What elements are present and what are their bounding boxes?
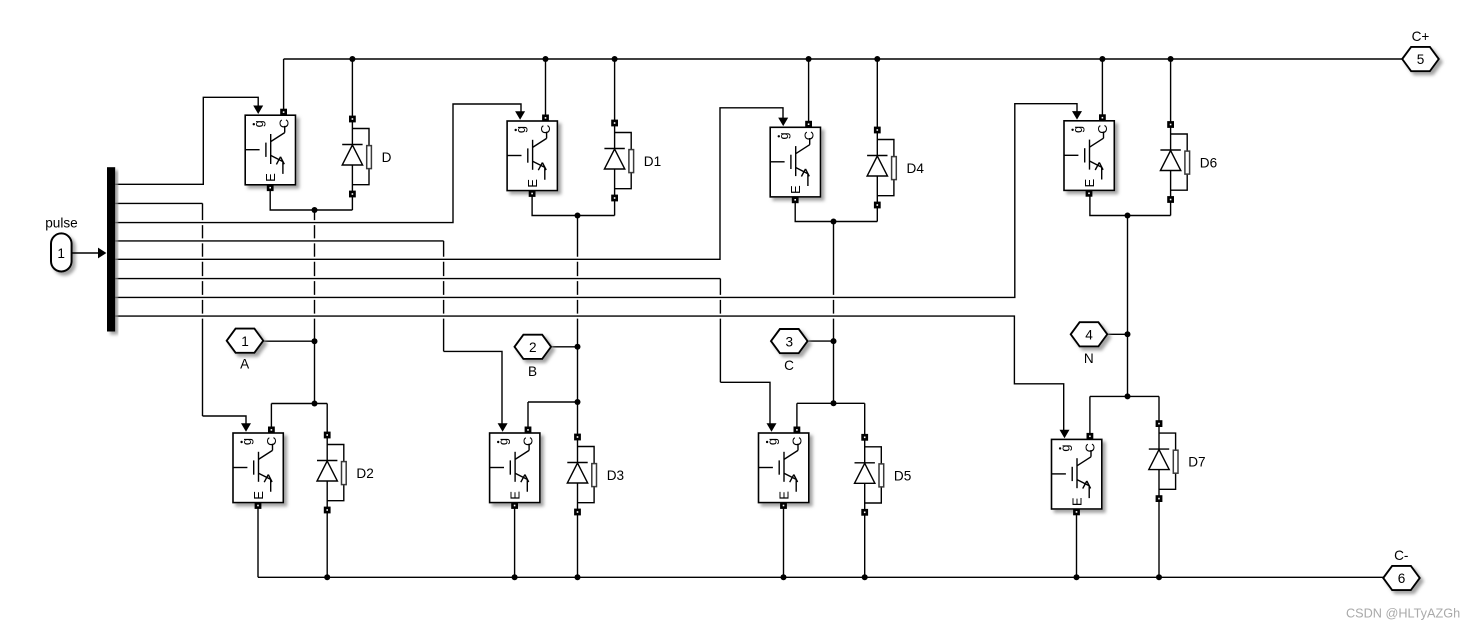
diode D7 [1149,422,1206,501]
wire leg C lower header [797,402,865,404]
diode D6 [1160,122,1217,201]
diode D [342,117,391,196]
wire D cathode to node A [351,195,353,210]
transistor Q2 (IGBT block) [507,111,557,195]
wire bus to Q3 C [808,59,810,125]
node B riser [577,216,579,348]
junction node N upper [1125,213,1131,219]
junction node A upper [312,207,318,213]
wire bus to Q1 C [283,59,285,112]
node C riser [833,222,835,342]
svg-text:D4: D4 [907,161,925,176]
wire gate 1 to Q1 [115,97,259,184]
port B (2) [515,335,552,379]
wire D5 cathode to bus [864,512,866,577]
wire pulse to demux [72,248,107,259]
wire header to D2 anode [326,404,328,437]
diode D4 [867,128,924,207]
diode D3 [567,435,624,514]
node N riser lower [1127,334,1129,396]
junction node N port [1125,331,1131,337]
svg-text:3: 3 [786,334,794,349]
wire leg N lower header [1090,395,1159,397]
wire header to Q6 C [527,402,529,430]
wire gate 4 to Q6 [115,241,503,425]
node A riser [314,210,316,342]
wire Q1 E to node A [270,188,352,210]
wire header to Q7 C [796,403,798,430]
wire Q7 E to bus [783,506,785,578]
wire Q5 E to bus [257,506,259,578]
wire D4 cathode to node C [876,206,878,222]
junction node B port [575,344,581,350]
junction busN-D7 [1156,574,1162,580]
svg-text:5: 5 [1417,52,1425,67]
svg-text:CSDN @HLTyAZGh: CSDN @HLTyAZGh [1346,607,1460,621]
junction node B upper [575,213,581,219]
junction bus-Q2 [543,56,549,62]
junction bus-D1 [612,56,618,62]
junction bus-D4 [874,56,880,62]
svg-text:D7: D7 [1188,455,1205,470]
wire Q6 E to bus [514,506,516,578]
svg-text:1: 1 [57,246,65,261]
wire header to D5 anode [864,403,866,438]
junction busN-Q6 [512,574,518,580]
wire gate 5 to Q3 [115,108,784,259]
svg-text:2: 2 [529,340,537,355]
transistor Q7 (IGBT block) [759,423,809,507]
wire bottom bus C- [258,576,1384,578]
svg-text:C: C [784,358,794,373]
port C+ (5) [1402,29,1439,71]
junction busN-Q7 [781,574,787,580]
watermark [1346,607,1460,621]
junction busN-D2 [324,574,330,580]
wire Q3 E to node C [795,200,877,222]
inport pulse (1) [45,216,78,272]
svg-text:C-: C- [1394,548,1408,563]
transistor Q5 (IGBT block) [233,423,283,507]
port C (3) [771,329,808,373]
wire bus to D6 anode [1170,59,1172,126]
svg-text:C+: C+ [1412,29,1430,44]
diode D1 [604,121,661,200]
svg-text:N: N [1084,351,1094,366]
junction busN-Q8 [1074,574,1080,580]
port C- (6) [1383,548,1420,590]
wire port C to riser [809,340,834,342]
wire leg A lower header [271,403,327,405]
junction bus-D6 [1168,56,1174,62]
wire D3 cathode to bus [577,512,579,577]
junction bus-D [349,56,355,62]
wire port N to riser [1108,333,1128,335]
transistor Q1 (IGBT block) [245,106,295,190]
svg-text:D3: D3 [607,468,624,483]
wire D1 cathode to node B [614,199,616,216]
wire header to Q8 C [1089,396,1091,436]
wire header to D7 anode [1158,396,1160,424]
svg-text:1: 1 [241,334,249,349]
node A riser lower [314,342,316,404]
wire bus to D anode [351,59,353,120]
wire bus to D4 anode [876,59,878,131]
wire gate 2 to Q5 [115,203,247,424]
svg-text:6: 6 [1398,571,1406,586]
transistor Q4 (IGBT block) [1064,111,1114,195]
svg-text:D2: D2 [356,466,373,481]
svg-text:4: 4 [1085,328,1093,343]
diode D2 [317,433,374,512]
svg-text:D1: D1 [644,154,661,169]
wire header to Q5 C [270,404,272,431]
wire top bus C+ [284,58,1402,60]
junction node A lower [312,401,318,407]
wire gate 7 to Q4 [115,104,1078,298]
junction bus-Q4 [1099,56,1105,62]
junction node N lower [1125,393,1131,399]
wire Q2 E to node B [532,194,615,216]
node C riser lower [833,341,835,403]
svg-text:D5: D5 [894,468,911,483]
junction node B lower [575,399,581,405]
node N riser [1127,216,1129,335]
port A (1) [227,329,264,372]
wire D7 cathode to bus [1158,499,1160,578]
wire Q4 E to node N [1090,193,1171,215]
wire bus to D1 anode [614,59,616,124]
junction bus-Q3 [806,56,812,62]
transistor Q6 (IGBT block) [490,423,540,507]
wire bus to Q4 C [1101,59,1103,118]
wire port A to riser [263,340,314,342]
wire D6 cathode to node N [1170,201,1172,216]
wire bus to Q2 C [545,59,547,118]
wire gate 8 to Q8 [115,316,1064,431]
svg-text:pulse: pulse [45,216,78,231]
junction busN-D3 [575,574,581,580]
wire leg B lower header [528,401,578,403]
junction node C upper [831,219,837,225]
transistor Q3 (IGBT block) [770,118,820,202]
node B riser lower [577,347,579,402]
wire port B to riser [552,346,577,348]
port N (4) [1071,322,1108,366]
wire gate 6 to Q7 [115,279,771,425]
wire Q8 E to bus [1076,512,1078,577]
diode D5 [855,435,912,514]
junction node A port [312,338,318,344]
svg-text:B: B [528,364,537,379]
svg-text:A: A [240,357,250,372]
junction node C lower [831,400,837,406]
transistor Q8 (IGBT block) [1052,430,1102,514]
demux bar [107,167,115,331]
wire header to D3 anode [577,402,579,438]
wire gate 3 to Q2 [115,104,522,223]
svg-text:D6: D6 [1200,156,1217,171]
wire D2 cathode to bus [326,510,328,577]
svg-text:D: D [382,150,392,165]
junction busN-D5 [862,574,868,580]
junction node C port [831,338,837,344]
